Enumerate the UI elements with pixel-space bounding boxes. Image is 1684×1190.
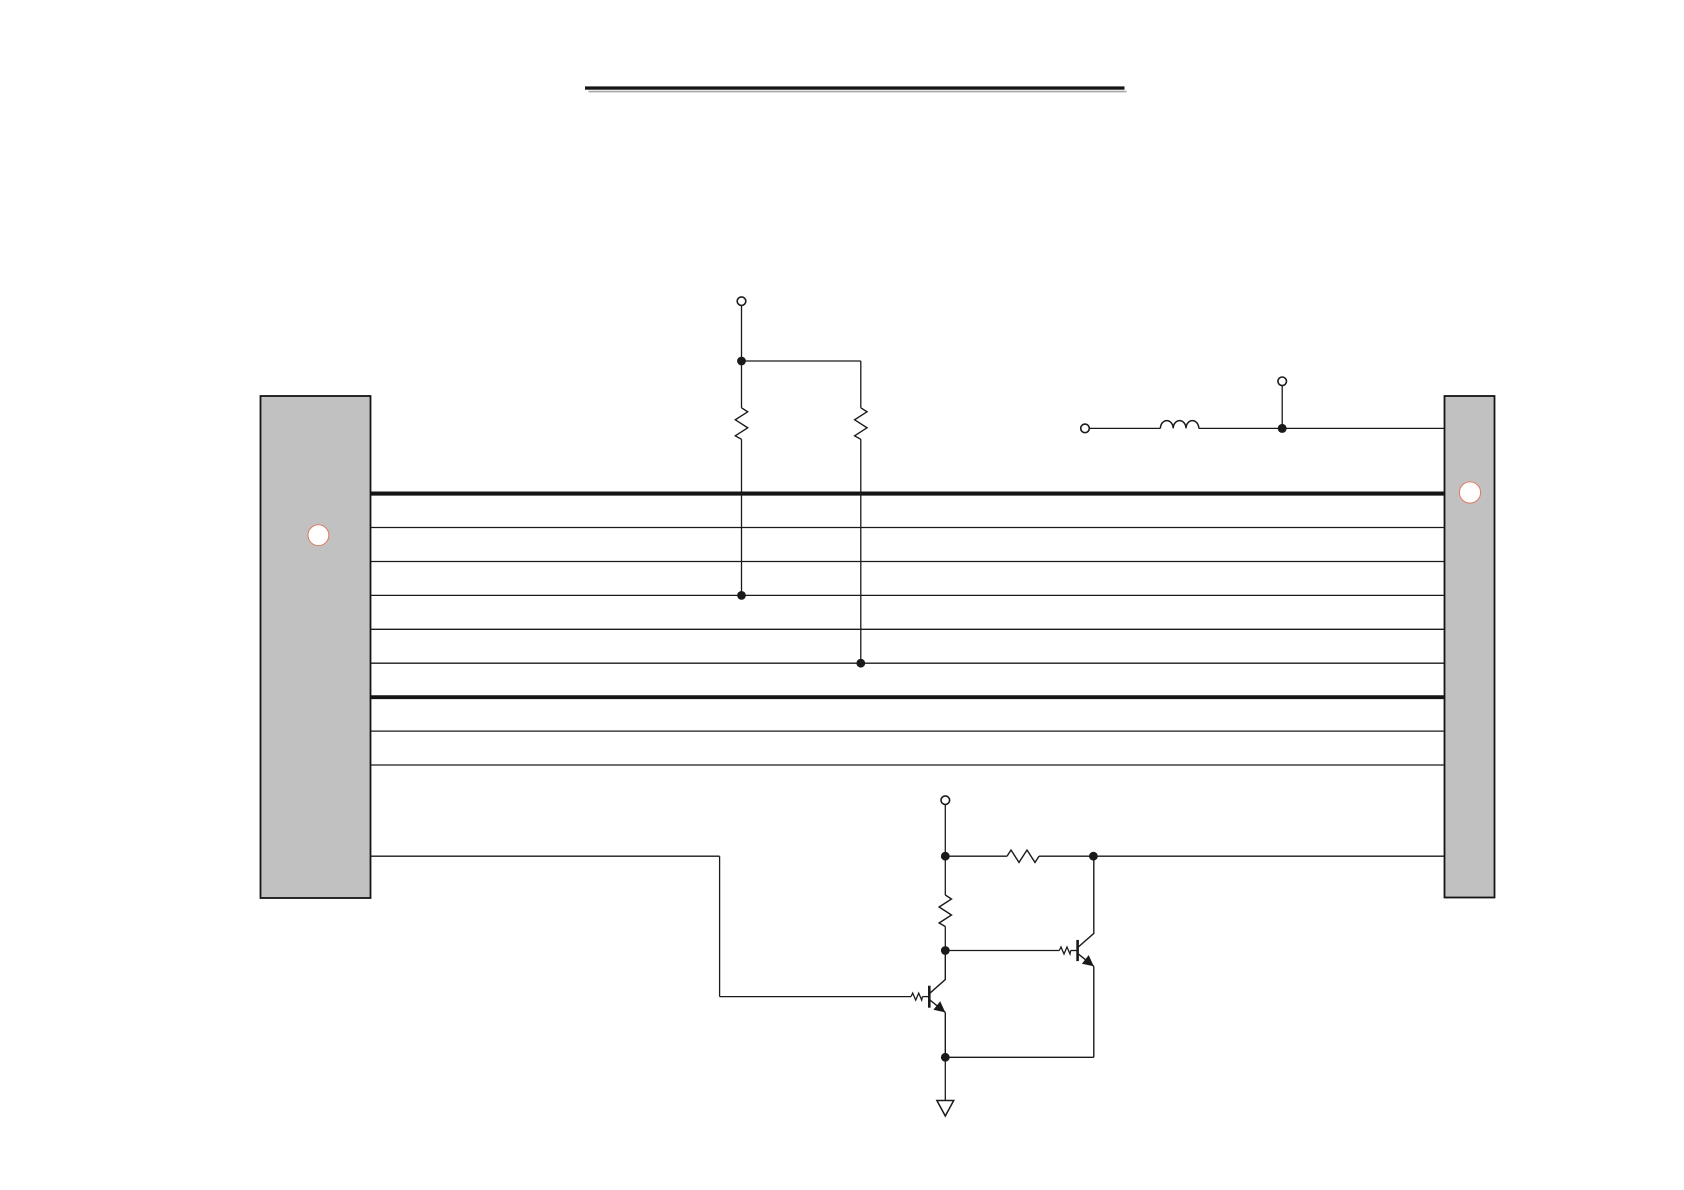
wire inductor to right block: [1199, 427, 1445, 429]
wire node B up to T4: [1281, 386, 1283, 429]
node E junction dot: [941, 946, 950, 955]
terminal T1: [737, 297, 746, 306]
node A junction dot: [737, 357, 746, 366]
wire bus line 8: [371, 730, 1445, 732]
wire bus line 2: [371, 527, 1445, 529]
base resistor of Q2 (squiggle): [1059, 947, 1070, 954]
wire node A to R2 branch: [742, 360, 861, 362]
resistor R4 (horizontal): [945, 850, 1093, 862]
mounting hole in left connector: [308, 525, 329, 546]
wire bus line 6: [371, 662, 1445, 664]
connector J1 (left block): [261, 396, 371, 898]
wire T2 to inductor L1: [1089, 427, 1160, 429]
wire bus line 1 (thick): [371, 492, 1445, 496]
wire node E to Q2 base: [945, 950, 1059, 952]
wire T3 down to node C: [944, 805, 946, 857]
wire Q2 emitter to node F: [945, 1056, 1094, 1058]
resistor R3 (vertical): [939, 856, 951, 950]
wire squiggle to Q1 bar: [922, 996, 929, 998]
wire T1 to node A: [741, 306, 743, 361]
wire riser down: [719, 856, 721, 996]
transistor Q1: [929, 951, 945, 1058]
wire bus line 4: [371, 594, 1445, 596]
node B junction dot: [1278, 424, 1287, 433]
title underline shadow: [589, 91, 1127, 93]
node junction R1 to bus line 4: [737, 591, 746, 600]
wire node D to right block: [1093, 855, 1444, 857]
wire bus line 3: [371, 561, 1445, 563]
wire bus line 9: [371, 764, 1445, 766]
inductor L1: [1160, 421, 1198, 429]
wire squiggle to Q2 bar: [1071, 950, 1078, 952]
node D junction dot: [1089, 852, 1098, 861]
terminal T2: [1081, 424, 1090, 433]
node C junction dot: [941, 852, 950, 861]
mounting hole in right connector: [1459, 482, 1480, 503]
resistor R1: [735, 361, 747, 595]
terminal T3: [941, 796, 950, 805]
title underline: [585, 86, 1125, 89]
node junction R2 to bus line 6: [856, 659, 865, 668]
resistor R2: [855, 361, 867, 663]
ground: [937, 1101, 954, 1117]
base resistor of Q1 (squiggle): [911, 993, 922, 1000]
wire node F down to ground: [944, 1057, 946, 1100]
wire bus line 5: [371, 628, 1445, 630]
wire to Q1 base: [720, 996, 911, 998]
connector J2 (right block): [1445, 396, 1495, 898]
terminal T4: [1278, 377, 1287, 386]
wire from left block to riser: [371, 855, 720, 857]
wire bus line 7 (thick): [371, 695, 1445, 699]
transistor Q2: [1078, 856, 1094, 1057]
node F junction dot: [941, 1053, 950, 1062]
